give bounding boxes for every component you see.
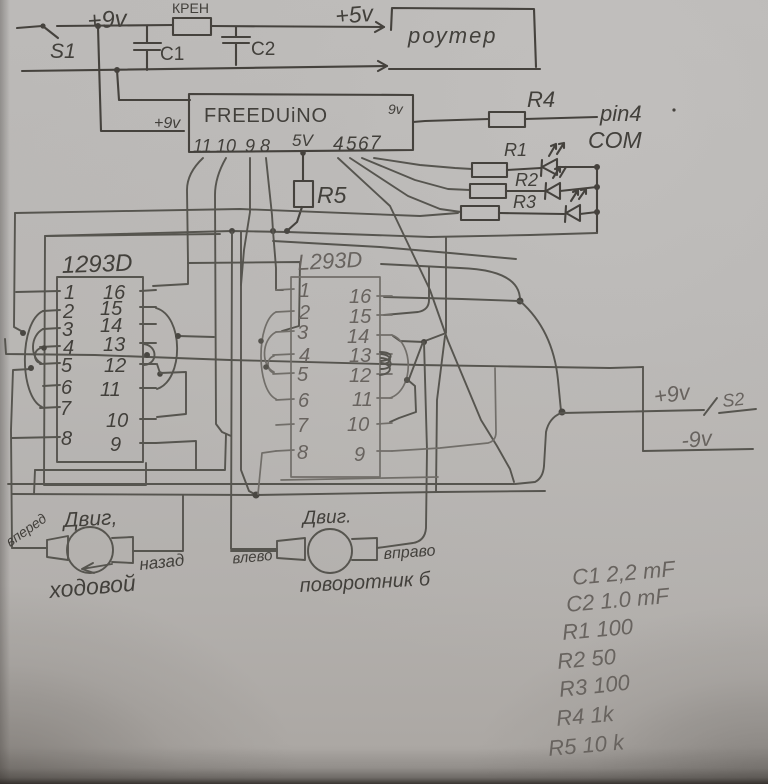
svg-text:+9v: +9v	[652, 379, 693, 409]
pin 6 stub	[43, 385, 60, 386]
wire KREN to router with +5v	[211, 26, 384, 27]
svg-text:Двиг,: Двиг,	[61, 506, 118, 532]
svg-text:8: 8	[260, 136, 270, 156]
svg-text:+9v: +9v	[154, 115, 181, 132]
node on loop	[144, 352, 150, 358]
svg-text:3: 3	[297, 322, 308, 344]
motor M2 body	[308, 529, 352, 573]
wire riser from D3 node down to motor2 right terminal	[377, 342, 427, 548]
wire arc pin3-pin5 left	[264, 332, 276, 372]
wire freeduino pin10 down	[215, 158, 231, 436]
wire fan pin6 to R2	[362, 158, 470, 190]
wire motor M1 right lead to riser	[133, 495, 183, 551]
svg-text:1293D: 1293D	[61, 250, 133, 279]
switch S2 contact	[704, 398, 717, 415]
svg-text:9: 9	[245, 136, 255, 156]
svg-text:10: 10	[106, 410, 128, 432]
resistor R4	[489, 112, 525, 127]
resistor R1	[472, 163, 507, 177]
pin 2 stub	[276, 311, 294, 312]
node D4	[404, 377, 410, 383]
wire H470 above motor1	[35, 434, 226, 470]
svg-text:15: 15	[349, 306, 372, 328]
node on L2	[284, 228, 290, 234]
motor M2 right terminal	[352, 538, 377, 560]
wire motor M1 left lead	[12, 547, 47, 549]
wire V34 motor1 up	[34, 470, 35, 494]
wire D3 down to chip2 arc node	[409, 342, 423, 379]
capacitor C1	[134, 26, 161, 70]
wire top-left lead	[17, 26, 42, 28]
pin 16 stub	[140, 290, 156, 291]
pin 13 stub	[140, 342, 156, 344]
svg-text:R4 1k: R4 1k	[555, 701, 615, 731]
svg-text:R2: R2	[515, 170, 538, 190]
svg-text:C1: C1	[160, 44, 184, 65]
svg-text:10: 10	[216, 136, 236, 156]
node on right arc lower	[157, 371, 163, 377]
freeduino U0	[189, 94, 413, 152]
pin 9 stub	[377, 450, 392, 452]
wire arc pin3-pin5 left	[33, 329, 43, 363]
motor M2 left terminal	[277, 538, 305, 560]
svg-text:8: 8	[297, 442, 308, 464]
svg-text:12: 12	[104, 355, 126, 377]
wire fan pin5 to R3	[350, 158, 461, 212]
svg-text:+5v: +5v	[334, 0, 375, 29]
pin 4 stub	[40, 346, 60, 347]
node on L2	[229, 228, 235, 234]
pin 14 stub	[140, 323, 156, 325]
node on L2	[270, 228, 276, 234]
wire lower rail to router	[22, 66, 387, 71]
pin 12 stub	[140, 363, 156, 365]
svg-text:S2: S2	[721, 389, 745, 411]
svg-text:L293D: L293D	[297, 247, 363, 275]
svg-text:pin4: pin4	[599, 101, 642, 126]
svg-text:7: 7	[60, 398, 72, 420]
svg-text:13: 13	[103, 334, 125, 356]
svg-text:6: 6	[358, 134, 369, 155]
pin 12 stub	[377, 373, 392, 375]
wire fan pin4 sweep down to bottom right	[338, 158, 514, 482]
arrow under motor M1	[82, 563, 112, 573]
pin 1 stub	[276, 289, 294, 290]
pin 8 stub	[12, 437, 60, 438]
node on right arc	[404, 377, 410, 383]
svg-text:R4: R4	[527, 87, 555, 112]
wire chip1 arc-node stub right	[178, 336, 214, 337]
svg-text:влево: влево	[232, 547, 273, 567]
pin 9 stub	[140, 442, 156, 444]
svg-text:9: 9	[354, 444, 365, 466]
node 5V pin	[300, 150, 306, 156]
wire loop pin4-pin5	[268, 356, 274, 373]
switch S1	[40, 23, 45, 28]
wire step from J2 down to H483	[515, 413, 561, 484]
svg-text:5: 5	[61, 355, 73, 377]
diode D3	[565, 205, 580, 222]
resistor R3	[461, 206, 499, 220]
wire chip2 pin15 curve up	[384, 267, 429, 315]
wire vertical x241 down to H494 node	[241, 232, 256, 495]
svg-text:R2 50: R2 50	[556, 644, 617, 674]
wire H494 long	[12, 491, 545, 495]
pin 6 stub	[276, 399, 294, 400]
node at pin4 loop	[41, 345, 47, 351]
wire pin12 to pin10 via x186	[157, 364, 186, 417]
svg-text:9: 9	[110, 434, 121, 456]
motor M1 body	[67, 527, 113, 573]
pin 3 stub	[276, 331, 294, 332]
svg-text:Двиг.: Двиг.	[300, 506, 351, 529]
svg-text:13: 13	[349, 345, 371, 367]
wire J1 feed from chip2 pin15 area	[381, 264, 520, 300]
wire top rail to KREN	[57, 25, 173, 26]
svg-text:11: 11	[100, 379, 121, 401]
wire +9v rail	[562, 410, 704, 413]
wire +9v feed down-left	[98, 27, 184, 131]
svg-text:6: 6	[298, 390, 310, 412]
wire bus L1 outer-rect top	[15, 209, 458, 216]
wire chip2 pin9 out right and up to main wire	[392, 368, 496, 451]
wire freeduino pin9 down	[241, 158, 250, 285]
wire top bus drop x446 to D3 node	[425, 238, 446, 341]
wire chip2 pin16 to J1	[384, 297, 519, 301]
node on left arc lower	[263, 364, 269, 370]
capacitor C2	[222, 27, 250, 65]
pin 7 stub	[40, 407, 60, 408]
wire pin9v to R4	[413, 119, 489, 122]
resistor R2	[470, 184, 506, 198]
motor M1 right terminal	[112, 537, 133, 563]
wire x231 down to motor2 left	[231, 232, 277, 549]
pin 15 stub	[377, 314, 392, 316]
svg-text:12: 12	[349, 365, 371, 387]
node on left arcs	[258, 338, 264, 344]
wire chip2-rect right edge down	[436, 336, 445, 491]
wire loop pin4-pin5	[35, 348, 41, 363]
pin 14 stub	[377, 334, 392, 336]
IC U2 L293D body	[291, 277, 380, 477]
svg-text:R1: R1	[504, 140, 527, 160]
wire D3 node to chip2 pin14	[393, 336, 424, 342]
wire loop pin13-pin12 scribble	[380, 352, 391, 375]
pin 10 stub	[140, 418, 156, 420]
wire y263 branch to chip2 pin3	[188, 262, 300, 331]
node on arc lower	[28, 365, 34, 371]
voltage regulator KREN	[173, 18, 211, 35]
svg-text:11: 11	[193, 136, 212, 156]
wire fan pin7 to R1	[374, 158, 472, 169]
pin 15 stub	[140, 306, 156, 308]
node J1	[517, 298, 524, 305]
pin 11 stub	[140, 387, 156, 389]
svg-text:5: 5	[346, 134, 357, 155]
svg-text:КРЕН: КРЕН	[172, 0, 209, 16]
IC U1 L293D body	[57, 277, 143, 462]
wire gnd feed down	[117, 70, 190, 100]
pin 2 stub	[43, 310, 60, 311]
pin 16 stub	[377, 295, 392, 297]
node on H494	[253, 492, 260, 499]
svg-text:роутер: роутер	[407, 23, 498, 48]
node on arcs	[20, 330, 26, 336]
pin 5 stub	[40, 363, 60, 364]
motor M1 left terminal	[47, 536, 68, 560]
svg-text:-9v: -9v	[680, 425, 715, 453]
diode D1	[541, 159, 557, 176]
pin 1 stub	[16, 291, 60, 292]
node on right arc	[175, 333, 181, 339]
svg-text:FREEDUiNO: FREEDUiNO	[204, 105, 328, 127]
wire J1 curve down to J2	[520, 301, 561, 411]
svg-text:9v: 9v	[388, 101, 404, 117]
node J2	[559, 409, 566, 416]
svg-text:16: 16	[349, 286, 372, 308]
wire motor M2 left lead	[231, 550, 277, 552]
pin 3 stub	[43, 328, 60, 329]
svg-text:5V: 5V	[292, 131, 314, 150]
wire H483 long	[8, 483, 514, 485]
node D3	[421, 339, 427, 345]
svg-text:R3: R3	[513, 192, 536, 212]
resistor R5	[302, 153, 304, 181]
svg-text:5: 5	[297, 364, 309, 386]
pin 11 stub	[377, 397, 392, 399]
switch S2 underline	[719, 409, 756, 413]
pin 4 stub	[273, 354, 294, 355]
pin 5 stub	[273, 373, 294, 374]
wire freeduino pin8 down to chip2 pin1	[266, 158, 283, 290]
svg-text:10: 10	[347, 414, 369, 436]
wire arc pin2-pin7 left	[25, 311, 43, 407]
svg-text:S1: S1	[50, 40, 76, 63]
wire freeduino pin11 down to chip1 pin16	[153, 158, 203, 286]
svg-text:2: 2	[298, 302, 310, 324]
wire LED bus vertical	[596, 166, 598, 233]
wire arc pin14-pin11 right	[390, 335, 408, 398]
wire loop pin13-pin12 right	[144, 344, 155, 365]
wire chip2 bottom underline	[281, 477, 438, 480]
wire bus L2 across to LED bus	[45, 231, 597, 237]
wire rect top around chip2	[273, 241, 516, 259]
svg-text:1: 1	[299, 280, 310, 302]
wire -9v rail	[643, 449, 753, 451]
wire H355 right drop to +9v rail	[642, 367, 644, 451]
svg-text:7: 7	[297, 415, 309, 437]
pin 7 stub	[276, 424, 294, 425]
svg-text:COM: COM	[588, 127, 643, 153]
svg-text:6: 6	[61, 377, 73, 399]
node junction	[114, 67, 120, 73]
wire outer-rect left edge upper	[14, 213, 23, 332]
wire arc pin15-pin11 right	[156, 308, 177, 389]
pin 10 stub	[377, 423, 392, 424]
node junction	[95, 23, 101, 29]
wire main long H355 across page	[5, 339, 643, 368]
svg-text:+9v: +9v	[87, 5, 130, 35]
pin 13 stub	[377, 353, 392, 355]
wire D4 to chip2 pin10	[390, 381, 416, 422]
router box	[389, 8, 540, 69]
pin 8 stub	[276, 450, 294, 451]
svg-text:8: 8	[61, 428, 72, 450]
svg-text:11: 11	[352, 389, 373, 411]
svg-text:4: 4	[333, 134, 344, 155]
wire arc pin2-pin6 left	[261, 312, 276, 399]
wire chip2 pin8 down to H494	[258, 451, 276, 494]
svg-text:R5: R5	[317, 182, 347, 208]
wire inner rect around chip1	[44, 234, 220, 485]
wire pin9 out right and down	[156, 441, 196, 469]
svg-text:вправо: вправо	[383, 542, 436, 563]
svg-text:7: 7	[370, 133, 382, 154]
diode D2	[545, 183, 560, 199]
svg-text:C2: C2	[251, 39, 275, 60]
wire outer-rect left edge lower from arc node	[11, 369, 31, 548]
